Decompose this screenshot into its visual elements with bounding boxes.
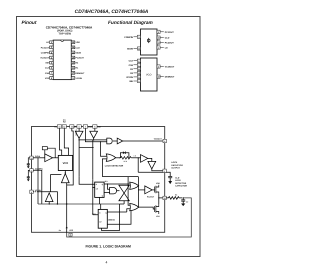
wire SIGIN to amp xyxy=(33,157,45,159)
phase comparator block xyxy=(141,29,158,55)
svg-text:PC2OUT: PC2OUT xyxy=(76,57,85,60)
FF1 Q wire to OR1 xyxy=(104,183,130,185)
svg-text:11: 11 xyxy=(138,68,140,71)
external coupling cap on pin 14 xyxy=(27,158,30,167)
wire VCOIN down xyxy=(67,128,74,185)
buffer B1 xyxy=(141,155,148,163)
wire T1-T2 cross link xyxy=(79,147,94,149)
DIP body xyxy=(53,40,71,80)
wire C1B down to AND input xyxy=(85,128,106,142)
svg-text:TOP VIEW: TOP VIEW xyxy=(58,32,71,35)
wire OR2 out to NMOS gate xyxy=(138,207,154,209)
phase comp right pins xyxy=(157,30,164,49)
wire buffer A3 down xyxy=(66,183,68,204)
notch xyxy=(61,40,64,41)
svg-text:COMPIN: COMPIN xyxy=(124,36,133,39)
AND gate G0 (VCO out) xyxy=(107,138,112,144)
mid horizontal wires xyxy=(102,177,138,184)
svg-text:C2: C2 xyxy=(186,201,188,204)
amp A2 (VCOIN) xyxy=(38,192,57,204)
svg-text:CLD: CLD xyxy=(175,177,180,180)
wire INH to inverter T2 xyxy=(94,128,96,131)
wire B1 to B2 xyxy=(148,158,152,161)
svg-text:VCOOUT: VCOOUT xyxy=(165,66,175,69)
NMOS output transistor xyxy=(155,204,159,214)
svg-text:LD: LD xyxy=(165,47,168,50)
FF2 bottom loop xyxy=(101,204,124,230)
amp A1 (SIGIN) xyxy=(45,154,53,162)
svg-text:13: 13 xyxy=(164,197,166,200)
inverter T1 xyxy=(75,131,83,138)
chip boundary frame xyxy=(32,127,165,233)
svg-text:CAPACITOR: CAPACITOR xyxy=(175,185,187,188)
svg-text:R3: R3 xyxy=(175,193,177,196)
svg-text:11: 11 xyxy=(59,126,61,129)
wire T2 output to AND xyxy=(79,138,107,140)
svg-text:FIGURE 1. LOGIC DIAGRAM: FIGURE 1. LOGIC DIAGRAM xyxy=(85,244,131,248)
svg-text:1 F: 1 F xyxy=(134,155,136,158)
svg-text:INH: INH xyxy=(129,80,133,83)
svg-text:DEMOD: DEMOD xyxy=(108,218,115,221)
VCO right pins xyxy=(157,65,164,78)
FF1 Qbar wire to AND G1 xyxy=(104,191,110,193)
note text LD output xyxy=(171,161,183,169)
XOR lower input loop xyxy=(102,159,106,177)
transmission gate (bowtie) xyxy=(119,185,129,201)
svg-text:6: 6 xyxy=(79,126,80,129)
external CLD capacitor xyxy=(168,176,172,181)
output node to pin 13 xyxy=(159,195,163,205)
svg-text:VCOIN: VCOIN xyxy=(74,130,77,137)
wire LD out to pin 1 xyxy=(152,169,163,171)
svg-text:INH: INH xyxy=(97,126,101,129)
note text CLD capacitor xyxy=(175,177,187,188)
wire CLD out xyxy=(138,172,170,176)
svg-text:VCO: VCO xyxy=(63,162,69,165)
svg-text:7: 7 xyxy=(138,64,139,67)
svg-text:3: 3 xyxy=(138,36,139,39)
wire to VCOOUT pin 4 xyxy=(123,140,163,142)
svg-text:PC1OUT: PC1OUT xyxy=(165,31,175,34)
svg-text:DETECTOR: DETECTOR xyxy=(175,182,187,185)
wire bowtie bottom to bus xyxy=(123,201,125,204)
gray bus line xyxy=(38,203,120,205)
wire T1 output down to FF area xyxy=(78,138,80,176)
wire XOR out xyxy=(116,157,121,159)
svg-text:15: 15 xyxy=(157,37,159,40)
svg-text:VCOOUT: VCOOUT xyxy=(40,57,50,60)
inverter T2 xyxy=(90,131,98,138)
svg-text:Pinout: Pinout xyxy=(22,20,37,26)
svg-text:VDD: VDD xyxy=(76,41,81,44)
FF2 output wires xyxy=(107,209,131,224)
OR gate OR1 xyxy=(130,182,139,189)
wire to PMOS gate xyxy=(152,189,154,191)
external coupling cap on pin 3 xyxy=(27,170,30,179)
svg-text:4: 4 xyxy=(106,261,108,265)
svg-text:Functional Diagram: Functional Diagram xyxy=(108,20,154,26)
svg-text:CLD: CLD xyxy=(165,37,170,40)
svg-text:1: 1 xyxy=(158,47,159,50)
lock detector XOR gate xyxy=(106,154,115,162)
svg-text:COMPIN: COMPIN xyxy=(41,51,50,54)
svg-text:10: 10 xyxy=(157,76,159,79)
svg-text:4: 4 xyxy=(164,140,165,143)
left pin 14 SIGIN xyxy=(30,156,33,159)
svg-text:LOCK DETECTOR: LOCK DETECTOR xyxy=(105,165,124,168)
svg-text:INH: INH xyxy=(45,62,49,65)
phase comp left pins xyxy=(134,35,141,50)
pin numbers xyxy=(51,41,75,80)
top pin boxes xyxy=(57,125,97,128)
wire: external low-pass filter return loop xyxy=(67,198,192,237)
svg-text:VCOIN: VCOIN xyxy=(126,76,133,79)
svg-text:VCOIN: VCOIN xyxy=(76,77,83,80)
wire FF1 Q down to OR2 xyxy=(128,184,130,205)
svg-text:C1B: C1B xyxy=(88,126,93,129)
VCO left pins xyxy=(134,59,141,83)
wire C1A to inverter T1 xyxy=(78,128,80,131)
svg-text:PC2OUT: PC2OUT xyxy=(147,196,155,199)
svg-text:DETECTOR: DETECTOR xyxy=(171,164,183,167)
svg-text:7: 7 xyxy=(85,126,86,129)
inverter B3 xyxy=(145,186,152,194)
wire T1 branch to FF1 xyxy=(79,177,95,185)
svg-text:SIGIN: SIGIN xyxy=(127,48,133,51)
wire VSS down to pin 8 xyxy=(66,204,68,233)
svg-text:C1B: C1B xyxy=(45,72,50,75)
svg-text:5: 5 xyxy=(94,126,95,129)
resistor R (lock detector) xyxy=(120,157,131,160)
wire R1 down to VCO xyxy=(60,128,62,155)
buffer B2 (down triangle) xyxy=(148,161,156,169)
svg-text:SIGIN: SIGIN xyxy=(76,51,82,54)
svg-text:LOCK: LOCK xyxy=(171,161,177,164)
AND G1 input stub xyxy=(108,184,110,189)
amp A1 feedback resistor xyxy=(42,147,47,150)
svg-text:Rs: Rs xyxy=(59,229,61,232)
svg-text:5: 5 xyxy=(138,80,139,83)
wire T2 branch down xyxy=(92,140,94,179)
left pin 9 VCOIN xyxy=(30,190,33,193)
wire R2 down to VCO xyxy=(64,128,68,155)
svg-text:LOCK: LOCK xyxy=(175,179,181,182)
pin 13 box xyxy=(163,196,166,199)
svg-text:14: 14 xyxy=(31,157,33,160)
wire junction down to CLD xyxy=(137,158,139,173)
svg-text:8: 8 xyxy=(70,234,71,237)
external filter resistor R3 xyxy=(166,197,182,200)
svg-text:C1B: C1B xyxy=(129,64,134,67)
wire COMPIN down xyxy=(33,170,42,204)
svg-text:CD74HC7046A, CD74HCT7046A: CD74HC7046A, CD74HCT7046A xyxy=(75,9,149,15)
svg-text:C1A: C1A xyxy=(72,126,77,129)
wire to buffer B1 xyxy=(131,157,140,159)
svg-text:2: 2 xyxy=(158,31,159,34)
buffer A3 (up triangle under VCO) xyxy=(61,174,69,183)
svg-text:6: 6 xyxy=(138,60,139,63)
wire vertical bus from SIGIN line xyxy=(37,158,39,204)
svg-text:1: 1 xyxy=(164,170,165,173)
diode D1 bypass loop xyxy=(120,153,128,158)
external filter cap C2 xyxy=(181,198,185,204)
ground xyxy=(168,181,172,184)
wire A2 out xyxy=(48,202,50,204)
flip-flop FF1 xyxy=(95,182,104,197)
phi symbol xyxy=(147,39,150,42)
svg-text:15 k: 15 k xyxy=(124,160,127,163)
flip-flop FF2 xyxy=(98,209,107,228)
svg-text:DEMOUT: DEMOUT xyxy=(165,76,175,79)
wire amp A1 out to VCO xyxy=(53,157,59,159)
svg-text:PC2OUT: PC2OUT xyxy=(165,42,175,45)
PMOS output transistor xyxy=(155,185,159,195)
pin 1 box xyxy=(163,169,166,172)
svg-text:OUTPUT: OUTPUT xyxy=(171,167,180,170)
left pin labels xyxy=(40,41,50,80)
left pin 3 COMPIN xyxy=(30,169,33,172)
pin 4 box xyxy=(163,139,166,142)
svg-text:12: 12 xyxy=(138,72,140,75)
pins xyxy=(50,41,75,79)
svg-text:12: 12 xyxy=(63,126,65,129)
right pin labels xyxy=(76,41,86,80)
junction dots xyxy=(78,139,79,140)
wire stub left of buffer xyxy=(51,174,62,191)
svg-text:VCOOUT: VCOOUT xyxy=(154,138,163,141)
svg-text:DEMOUT: DEMOUT xyxy=(76,72,86,75)
svg-text:9: 9 xyxy=(31,191,32,194)
wire G1 out to bowtie xyxy=(117,190,120,192)
svg-text:CLD: CLD xyxy=(76,46,81,49)
svg-text:C1A: C1A xyxy=(129,60,134,63)
VCO block xyxy=(58,155,72,170)
svg-text:PC1OUT: PC1OUT xyxy=(41,46,50,49)
wire OR1 out to inverter xyxy=(138,189,144,191)
top pin labels xyxy=(54,118,101,128)
VCO block xyxy=(141,58,158,91)
OR gate OR2 xyxy=(130,204,139,211)
svg-text:VSS: VSS xyxy=(45,77,50,80)
svg-text:VCO: VCO xyxy=(146,74,151,77)
AND gate G1 xyxy=(110,188,117,194)
page frame xyxy=(17,17,201,257)
dashed external wire into pin 9 xyxy=(33,191,38,193)
svg-text:9: 9 xyxy=(138,76,139,79)
svg-text:3: 3 xyxy=(31,169,32,172)
svg-text:C1A: C1A xyxy=(45,67,50,70)
buffer after G0 xyxy=(117,138,123,144)
svg-text:13: 13 xyxy=(157,42,159,45)
wire VCO out down xyxy=(64,171,66,174)
XOR upper input xyxy=(101,142,107,157)
wire T2 branch to FF1/FF2 xyxy=(93,179,98,215)
